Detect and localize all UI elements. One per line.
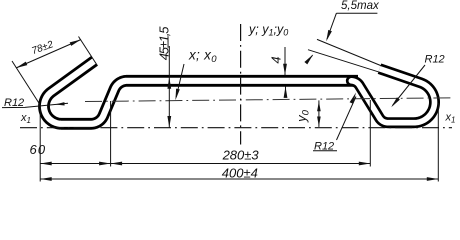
5,5max extension lines along hook tip faces: [317, 39, 381, 65]
profile strip: left hook, left curl R12, bottom flat, S-rise, top flat: [44, 61, 358, 124]
extension line at x=370.3 (280 right end): [369, 100, 371, 167]
dimension 280+/-3: dim line, arrows, text: [111, 163, 371, 165]
svg-text:R12: R12: [425, 54, 445, 66]
dimension 4 (strip thickness): arrows and text: [284, 47, 286, 75]
dimension 45+/-1,5 (profile height): dim line, arrows, text: [168, 46, 170, 128]
profile strip: right S-drop, bottom flat, right curl R12, right hook: [351, 69, 434, 123]
axis x; x0 (horizontal dash-dot centerline): [85, 98, 452, 102]
extension line at x=40 (left profile edge): [39, 105, 41, 182]
svg-text:45±1,5: 45±1,5: [156, 26, 171, 60]
svg-text:y; y1;y0: y; y1;y0: [248, 23, 288, 38]
extension line at x=438.3 (right profile edge): [437, 103, 439, 182]
dimension 78+/-2 (left hook length): dim line, arrows, extension lines, text: [16, 40, 81, 69]
axis x1 (horizontal dash-dot through bottom flats): [20, 127, 452, 129]
svg-text:60: 60: [29, 142, 46, 157]
dimension y0 (axis distance): dim line, arrows, text: [318, 100, 320, 127]
dimension 400+/-4: dim line, arrows, text: [40, 178, 438, 180]
svg-text:5,5max: 5,5max: [341, 0, 380, 12]
5,5max lower arrow: [306, 55, 313, 63]
svg-text:280±3: 280±3: [222, 147, 260, 162]
axis y; y1; y0 (vertical dash-dot centerline): [240, 24, 242, 145]
svg-text:400±4: 400±4: [222, 166, 258, 181]
dimension 60: dim line, arrows, text: [40, 163, 110, 165]
svg-text:4: 4: [269, 56, 284, 63]
extension line at x=110.6 (60/280 boundary): [110, 101, 112, 167]
